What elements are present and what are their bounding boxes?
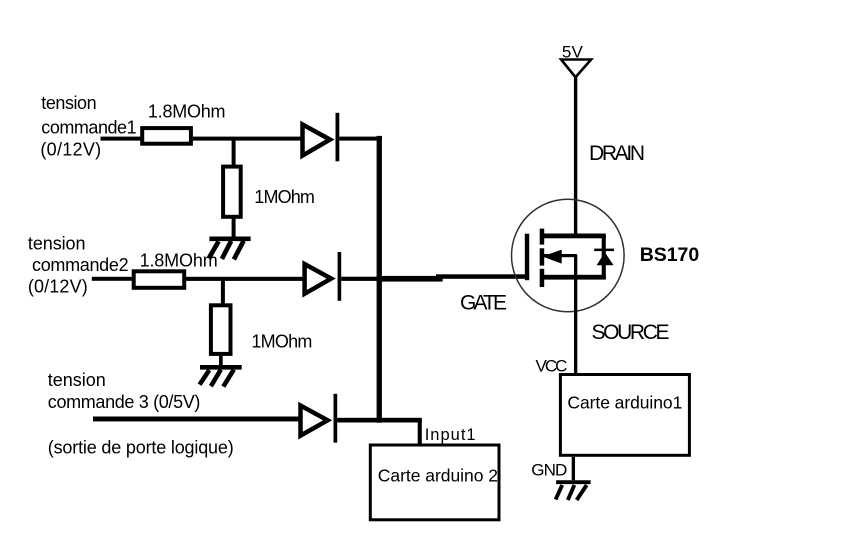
svg-text:tension: tension [41, 93, 96, 113]
wire D3 to bus and right [337, 418, 422, 423]
svg-text:1MOhm: 1MOhm [254, 187, 315, 207]
wire junction drop 2 [221, 279, 225, 305]
wire junction drop 1 [232, 139, 236, 166]
wire D1 to bus [339, 137, 382, 141]
ground GND1 [209, 239, 251, 260]
svg-text:GND: GND [531, 461, 567, 480]
svg-text:commande1: commande1 [41, 118, 136, 138]
resistor R2 1MOhm pulldown 1 [223, 167, 241, 217]
resistor R4 1MOhm pulldown 2 [211, 305, 231, 354]
svg-text:DRAIN: DRAIN [589, 142, 645, 165]
box Carte arduino1 [560, 375, 689, 456]
wire bus to gate segment b [436, 274, 529, 279]
wire vertical bus [377, 136, 382, 423]
svg-text:1.8MOhm: 1.8MOhm [140, 250, 218, 270]
node tension commande 3 label [48, 370, 201, 412]
svg-text:tension: tension [48, 370, 106, 390]
svg-text:VCC: VCC [536, 356, 568, 375]
ground GND3 [556, 482, 591, 500]
resistor R3 1.8MOhm [134, 271, 185, 288]
wire R4 to ground 2 [219, 354, 223, 366]
svg-text:Carte arduino 2: Carte arduino 2 [378, 466, 498, 486]
svg-text:GATE: GATE [460, 292, 507, 315]
svg-text:1.8MOhm: 1.8MOhm [148, 102, 226, 122]
svg-text:(sortie de porte logique): (sortie de porte logique) [48, 438, 234, 458]
svg-text:Input1: Input1 [425, 426, 476, 444]
wire source to Carte arduino1 [574, 255, 577, 375]
svg-text:SOURCE: SOURCE [592, 321, 670, 344]
diode D1 [303, 113, 340, 162]
wire input 2 [92, 277, 132, 281]
wire drain from 5V [574, 77, 577, 236]
svg-text:(0/12V): (0/12V) [28, 276, 88, 296]
svg-text:commande2: commande2 [32, 255, 129, 275]
box Carte arduino 2 [370, 445, 499, 520]
wire input 3 [93, 417, 300, 422]
resistor R1 1.8MOhm [142, 128, 191, 144]
svg-text:1MOhm: 1MOhm [251, 332, 312, 352]
wire R1 to diode D1 [193, 137, 304, 141]
node tension commande2 label [28, 233, 129, 296]
svg-text:commande 3 (0/5V): commande 3 (0/5V) [48, 392, 201, 412]
wire drop to Input1 [418, 420, 422, 446]
wire bus to gate segment a [377, 276, 443, 282]
transistor Q1 BS170 [512, 199, 625, 312]
svg-text:tension: tension [28, 233, 86, 253]
wire R3 to diode D2 [186, 277, 305, 281]
power 5V symbol [561, 43, 591, 78]
svg-text:BS170: BS170 [640, 244, 700, 266]
wire GND [572, 457, 575, 480]
diode D2 [305, 252, 342, 301]
svg-text:(0/12V): (0/12V) [40, 140, 101, 160]
ground GND2 [200, 367, 242, 386]
svg-text:Carte arduino1: Carte arduino1 [567, 393, 682, 413]
diode D3 [301, 394, 338, 443]
wire input 1 [101, 137, 142, 141]
node tension commande1 label [40, 93, 136, 159]
wire D2 to bus [341, 277, 376, 281]
wire R2 to ground 1 [232, 219, 236, 238]
